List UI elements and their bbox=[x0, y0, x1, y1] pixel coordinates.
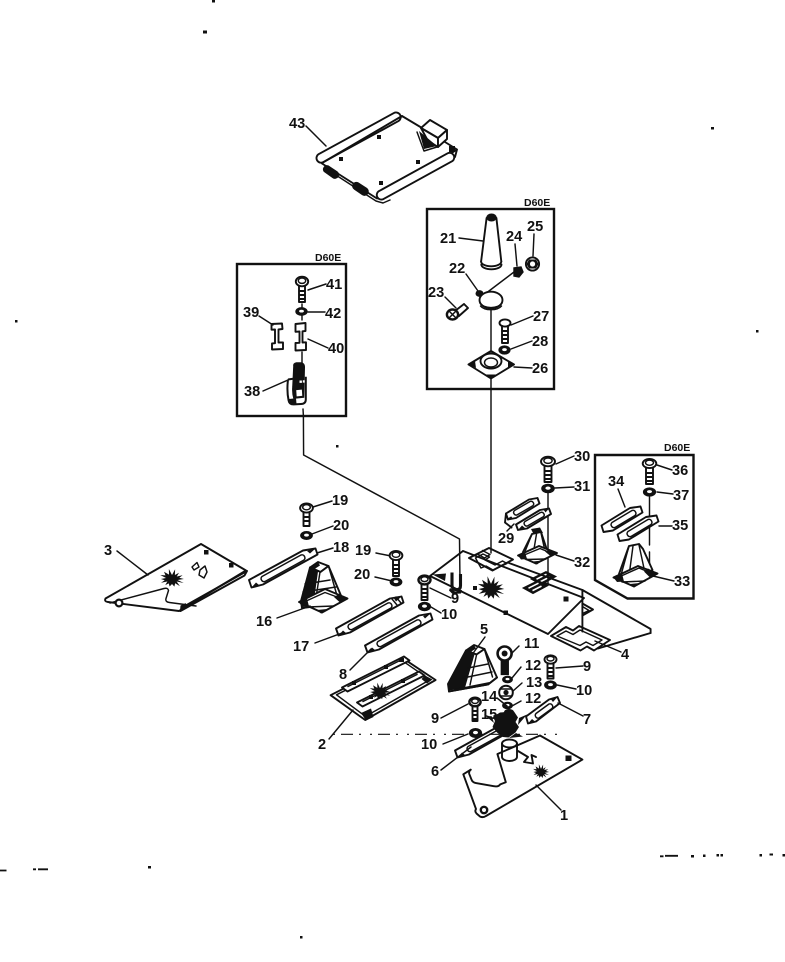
cone 21 top cap bbox=[486, 214, 496, 222]
svg-text:27: 27 bbox=[533, 309, 549, 325]
plate 3 dot 1 bbox=[204, 550, 209, 555]
D60E box right bbox=[595, 455, 694, 599]
pedestal 5 cone body bbox=[448, 649, 497, 692]
svg-text:18: 18 bbox=[333, 540, 349, 556]
plate 3 edge bar bbox=[181, 571, 248, 611]
pedestal 16 cone body bbox=[301, 566, 342, 608]
svg-text:12: 12 bbox=[525, 691, 541, 707]
svg-text:42: 42 bbox=[325, 306, 341, 322]
plate 4 top edge behind bbox=[509, 563, 582, 590]
leader 41 bbox=[308, 284, 326, 290]
bolt 41 bbox=[296, 277, 308, 302]
svg-text:11: 11 bbox=[524, 636, 539, 652]
svg-text:D60E: D60E bbox=[315, 252, 341, 264]
svg-text:9: 9 bbox=[431, 711, 439, 727]
washer 10 lower-left bbox=[470, 729, 482, 738]
svg-text:5: 5 bbox=[480, 622, 488, 638]
plate dot 1 bbox=[564, 597, 569, 602]
seat 32 dark bar lower bbox=[523, 581, 548, 594]
stray dot e bbox=[756, 330, 759, 333]
plate 2 corner dark T bbox=[399, 658, 404, 662]
leader 25 bbox=[533, 234, 534, 256]
bolt 19 first bbox=[300, 503, 313, 526]
plate 26 corner accents bbox=[469, 361, 515, 379]
leader 1 bbox=[536, 785, 561, 810]
svg-text:7: 7 bbox=[583, 712, 591, 728]
svg-text:22: 22 bbox=[449, 261, 465, 277]
leader 6 bbox=[441, 747, 471, 770]
plate 43 bracket box top bbox=[421, 120, 447, 138]
centerline 22-26 bbox=[490, 309, 492, 350]
leader 29 bbox=[507, 524, 514, 531]
lever 38 dark accent bbox=[289, 398, 297, 404]
star burst main plate bbox=[478, 576, 504, 599]
plate 43 bracket box front bbox=[421, 128, 438, 147]
cone 21 body bbox=[481, 218, 501, 262]
svg-text:D60E: D60E bbox=[524, 197, 550, 209]
leader 9 left-center bbox=[430, 588, 451, 598]
plate 43 top bar bbox=[316, 112, 400, 162]
leader 30 bbox=[556, 456, 574, 464]
svg-text:20: 20 bbox=[333, 518, 349, 534]
svg-text:17: 17 bbox=[293, 639, 309, 655]
leader 40 bbox=[308, 339, 328, 348]
plate 1 dot bbox=[566, 756, 572, 762]
leader 38 bbox=[263, 380, 288, 391]
plate 3 notch line bbox=[110, 588, 196, 606]
bolt 9 lower-left bbox=[469, 698, 480, 721]
hook clip foot bbox=[449, 588, 462, 594]
washer 20 second bbox=[390, 578, 402, 586]
strip 8 bbox=[365, 614, 433, 653]
seat 32 dark bar upper inner bbox=[537, 574, 550, 581]
leader 9 lower-left bbox=[441, 704, 468, 718]
svg-text:33: 33 bbox=[674, 574, 690, 590]
plate 2 rib upper bbox=[342, 657, 410, 692]
leader 10 lower-left bbox=[443, 734, 468, 744]
strip 34 bbox=[602, 507, 643, 533]
stray dot d bbox=[15, 320, 18, 323]
bracket 29 upper strip bbox=[506, 498, 540, 520]
plate 1 notch bbox=[469, 754, 506, 786]
seat 32 dark bar upper bbox=[531, 572, 556, 585]
svg-text:10: 10 bbox=[576, 683, 592, 699]
strip 6 bbox=[455, 724, 514, 758]
leader 5 bbox=[471, 637, 485, 656]
pedestal 5 cone top bbox=[466, 645, 485, 655]
bracket 39 bbox=[272, 324, 284, 350]
leader 33 bbox=[653, 576, 674, 581]
pedestal 16 dark band bbox=[301, 568, 318, 604]
margin dash left bbox=[0, 869, 48, 870]
leader 31 bbox=[555, 487, 574, 488]
D60E box left bbox=[237, 264, 346, 416]
pedestal 5 base edge bbox=[449, 678, 497, 692]
bolt 27 bbox=[500, 319, 511, 343]
plate 2 inner border bbox=[337, 661, 431, 716]
plate 2 corner dark R bbox=[422, 676, 433, 684]
ball cup 22 rim lines bbox=[480, 303, 502, 310]
pedestal 33 base bbox=[614, 566, 658, 588]
main plate seat cutout 29 inner bbox=[476, 554, 508, 570]
pedestal 32 cone bbox=[523, 528, 547, 557]
svg-text:38: 38 bbox=[244, 384, 260, 400]
leader 27 bbox=[511, 316, 533, 325]
svg-text:6: 6 bbox=[431, 764, 439, 780]
plate 4 chevron inner bbox=[582, 607, 589, 614]
svg-text:12: 12 bbox=[525, 658, 541, 674]
main plate seat cutout 29 tab bbox=[478, 551, 491, 559]
leader 24 bbox=[485, 244, 517, 294]
lever 38 white dots bbox=[300, 380, 305, 383]
plate 43 face dot 1 bbox=[377, 135, 381, 139]
plate 43 face bbox=[322, 116, 457, 199]
svg-text:3: 3 bbox=[104, 543, 112, 559]
leader 12 lower bbox=[512, 701, 521, 706]
stack 15 spring bbox=[502, 714, 513, 720]
washer 10 right bbox=[545, 681, 557, 689]
plate 26 ring bbox=[481, 354, 502, 369]
bolt 11 bbox=[498, 647, 512, 675]
routing line 38 to hook bbox=[303, 409, 460, 583]
svg-text:39: 39 bbox=[243, 305, 259, 321]
centerline dash-dot bbox=[333, 733, 562, 735]
strip 17 bbox=[336, 597, 404, 636]
leader 15 bbox=[494, 713, 504, 716]
bolt 30 bbox=[541, 457, 555, 482]
bolt 9 left-center bbox=[419, 576, 431, 600]
lever boot dark bbox=[493, 712, 520, 738]
bracket 29 link bbox=[505, 514, 512, 528]
svg-text:29: 29 bbox=[498, 531, 514, 547]
plate 43 clamp dark triangle bbox=[419, 131, 437, 149]
svg-text:19: 19 bbox=[332, 493, 348, 509]
strip 35 bbox=[618, 516, 659, 542]
margin dash right bbox=[660, 855, 678, 858]
leader 16 bbox=[277, 606, 310, 618]
leader 3 bbox=[117, 551, 148, 575]
bolt 9 right bbox=[545, 655, 557, 678]
svg-text:40: 40 bbox=[328, 341, 344, 357]
strip 18 bbox=[249, 549, 318, 588]
svg-text:2: 2 bbox=[318, 737, 326, 753]
leader 4 bbox=[595, 641, 621, 652]
svg-text:35: 35 bbox=[672, 518, 688, 534]
plate 1 outline bbox=[463, 736, 582, 818]
svg-text:10: 10 bbox=[421, 737, 437, 753]
plate 4 chevron outer bbox=[582, 604, 593, 616]
leader 36 bbox=[657, 465, 672, 470]
nut 24 bbox=[514, 267, 523, 277]
stud line 41-38 bbox=[301, 304, 303, 363]
svg-text:D60E: D60E bbox=[664, 442, 690, 454]
leader 12 upper bbox=[512, 667, 521, 678]
plate 43 roller 1 bbox=[324, 166, 339, 178]
plate 43 face dot 3 bbox=[416, 160, 420, 164]
strip 7 bbox=[526, 697, 560, 724]
svg-text:24: 24 bbox=[506, 229, 523, 245]
leader 10 right bbox=[557, 685, 576, 689]
pedestal 16 cone top bbox=[310, 562, 329, 572]
plate 43 face dot 4 bbox=[379, 181, 383, 185]
plate 3 outline bbox=[105, 544, 246, 611]
plate 1 ring hole bbox=[481, 807, 487, 813]
bolt 23 bbox=[447, 304, 468, 320]
washer 37 bbox=[644, 488, 656, 496]
washer 12 upper bbox=[503, 676, 513, 682]
hook clip dark bbox=[452, 573, 461, 590]
leader 37 bbox=[657, 492, 673, 494]
stray dot c bbox=[711, 127, 714, 130]
plate 43 face dot 2 bbox=[339, 157, 343, 161]
lever 38 bracket bbox=[287, 377, 305, 405]
svg-text:19: 19 bbox=[355, 543, 371, 559]
stud line 30 down bbox=[547, 493, 549, 584]
plate 43 roller 2 bbox=[353, 183, 368, 196]
strip 17 end hatches bbox=[392, 597, 401, 605]
washer 10 left-center bbox=[419, 602, 431, 610]
svg-text:21: 21 bbox=[440, 231, 456, 247]
plate 3 ring hole bbox=[116, 600, 123, 607]
stray dot b bbox=[203, 31, 207, 34]
svg-text:15: 15 bbox=[481, 707, 497, 723]
washer 28 bbox=[499, 346, 510, 354]
plate dot 3 bbox=[473, 586, 477, 590]
svg-text:20: 20 bbox=[354, 567, 370, 583]
plate 4 slot inner bbox=[557, 630, 602, 646]
star burst plate 3 bbox=[160, 569, 184, 587]
leader 19 first bbox=[313, 501, 332, 507]
bolt 36 bbox=[643, 459, 657, 484]
cylinder body bbox=[502, 740, 517, 762]
leader 18 bbox=[317, 548, 333, 553]
leader 21 bbox=[459, 238, 483, 241]
main plate corner tab dark triangle bbox=[433, 574, 447, 582]
plate 43 bracket box side bbox=[438, 130, 447, 147]
main plate outline bbox=[430, 551, 584, 634]
pedestal 5 stripes bbox=[463, 650, 493, 686]
stray dot a bbox=[212, 0, 215, 3]
ball seat 22 dark stub bbox=[476, 290, 484, 297]
leader 20 first bbox=[312, 526, 333, 534]
svg-text:43: 43 bbox=[289, 116, 305, 132]
plate dot 2 bbox=[504, 611, 509, 616]
leader 22 bbox=[466, 274, 478, 291]
cone 21 bottom bbox=[481, 262, 501, 270]
pedestal 16 stripes bbox=[303, 566, 338, 604]
bracket squiggle right of cylinder bbox=[518, 751, 536, 764]
svg-text:10: 10 bbox=[441, 607, 457, 623]
bracket 29 lower strip bbox=[516, 509, 551, 531]
nut 25 inner bbox=[527, 260, 539, 269]
bolt 19 second bbox=[390, 551, 403, 576]
svg-text:25: 25 bbox=[527, 219, 543, 235]
leader 26 bbox=[514, 367, 532, 368]
svg-text:8: 8 bbox=[339, 667, 347, 683]
plate 4 slot outer bbox=[551, 626, 610, 651]
stray dot f bbox=[336, 445, 339, 448]
svg-text:36: 36 bbox=[672, 463, 688, 479]
leader 19 second bbox=[376, 553, 391, 556]
washer 42 bbox=[296, 308, 307, 316]
stack 14 washer bbox=[504, 709, 514, 715]
plate 43 bottom edge bbox=[325, 168, 390, 203]
leader 11 bbox=[511, 646, 519, 654]
leader 9 right bbox=[556, 666, 583, 668]
D60E box middle bbox=[427, 209, 554, 389]
svg-text:32: 32 bbox=[574, 555, 590, 571]
leader 23 bbox=[445, 297, 456, 308]
plate 2 rib lower bbox=[357, 672, 425, 707]
leader 10 left-center bbox=[431, 607, 441, 613]
stray dot h bbox=[300, 936, 303, 939]
leader 7 bbox=[558, 703, 583, 716]
pedestal 16 base bbox=[299, 589, 348, 614]
leader 2 bbox=[329, 710, 353, 739]
leader 20 second bbox=[375, 577, 392, 581]
plate 43 clamp line bbox=[417, 132, 437, 151]
leader 32 bbox=[556, 555, 574, 561]
seat 32 dark bar lower inner bbox=[529, 583, 542, 590]
plate 4 top edge right bbox=[582, 590, 650, 633]
svg-text:26: 26 bbox=[532, 361, 548, 377]
svg-text:37: 37 bbox=[673, 488, 689, 504]
pedestal 32 base bbox=[518, 546, 557, 565]
leader 8 bbox=[350, 649, 371, 670]
plate 26 ring inner bbox=[485, 358, 498, 367]
svg-text:9: 9 bbox=[583, 659, 591, 675]
svg-text:4: 4 bbox=[621, 647, 630, 663]
plate 43 bottom bar bbox=[377, 153, 454, 200]
pedestal 33 cone bbox=[619, 544, 653, 579]
pedestal 5 dark band bbox=[449, 651, 475, 691]
centerline 26 to main plate bbox=[490, 379, 492, 553]
plate 4 flange vertical bbox=[581, 590, 583, 632]
leader 14 bbox=[497, 698, 507, 706]
plate 43 corner dot bbox=[449, 146, 455, 152]
svg-text:23: 23 bbox=[428, 285, 444, 301]
svg-text:9: 9 bbox=[451, 591, 459, 607]
nut 25 bbox=[526, 257, 539, 270]
svg-text:30: 30 bbox=[574, 449, 590, 465]
plate 2 outline bbox=[331, 658, 436, 720]
lever 38 grip bbox=[293, 363, 304, 398]
star burst plate 1 bbox=[533, 764, 549, 778]
leader 42 bbox=[308, 311, 325, 313]
washer 12 lower bbox=[503, 702, 513, 708]
stud line 36 down bbox=[649, 496, 651, 568]
svg-text:13: 13 bbox=[526, 675, 542, 691]
boot spike left bbox=[484, 715, 527, 739]
leader 34 bbox=[618, 489, 625, 507]
svg-text:31: 31 bbox=[574, 479, 590, 495]
plate 3 dot 2 bbox=[229, 563, 234, 568]
nut 13 bbox=[499, 686, 513, 700]
plate 3 squiggle marks bbox=[192, 563, 207, 579]
ball cup 22 bbox=[480, 292, 503, 309]
plate 26 diamond bbox=[469, 351, 515, 379]
svg-text:28: 28 bbox=[532, 334, 548, 350]
margin dots right bbox=[691, 854, 785, 858]
washer 20 first bbox=[301, 532, 313, 540]
washer 31 bbox=[542, 484, 554, 492]
leader 35 bbox=[659, 525, 672, 527]
leader 43 bbox=[306, 126, 326, 146]
leader 39 bbox=[259, 316, 273, 325]
lever 38 bracket slots bbox=[296, 389, 304, 397]
leader 28 bbox=[511, 341, 532, 349]
star burst plate 2 bbox=[370, 683, 391, 700]
svg-text:41: 41 bbox=[326, 277, 342, 293]
bracket 40 bbox=[296, 323, 307, 351]
plate 4 bottom edge bbox=[598, 633, 651, 649]
svg-text:34: 34 bbox=[608, 474, 625, 490]
leader 13 bbox=[513, 683, 522, 691]
margin dot left bbox=[148, 866, 151, 869]
leader 17 bbox=[315, 633, 342, 643]
svg-text:14: 14 bbox=[481, 689, 498, 705]
main plate seat cutout 29 outer bbox=[469, 548, 513, 571]
plate 2 corner dark B bbox=[361, 709, 374, 721]
svg-text:16: 16 bbox=[256, 614, 272, 630]
